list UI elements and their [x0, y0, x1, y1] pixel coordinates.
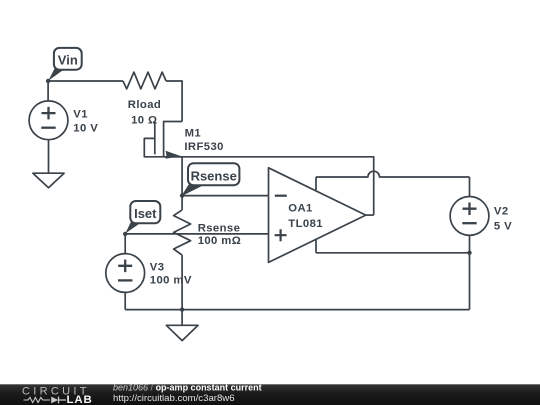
svg-text:Rsense: Rsense	[191, 168, 237, 183]
svg-text:V3: V3	[150, 262, 165, 274]
voltage source V3	[106, 254, 145, 293]
wire op-amp output to M1 gate	[144, 138, 373, 215]
svg-text:Rsense: Rsense	[198, 222, 241, 234]
node flag Rsense	[181, 163, 239, 196]
wire Rsense bottom to rail	[181, 255, 183, 310]
svg-text:10 Ω: 10 Ω	[131, 114, 157, 126]
svg-text:V2: V2	[494, 206, 509, 218]
node Iset junction dot	[123, 232, 127, 236]
resistor Rsense	[174, 210, 191, 255]
wire top rail Vin to Rload	[48, 80, 123, 82]
wire plus input from Iset node	[125, 233, 268, 235]
wire minus input from Rsense node	[182, 195, 268, 197]
ground below V1	[33, 173, 64, 188]
svg-text:IRF530: IRF530	[184, 141, 223, 153]
svg-text:http://circuitlab.com/c3ar8w6: http://circuitlab.com/c3ar8w6	[113, 393, 235, 404]
svg-text:OA1: OA1	[288, 203, 312, 215]
svg-text:100 mΩ: 100 mΩ	[198, 235, 242, 247]
transistor M1	[155, 121, 182, 196]
node V- rail junction dot	[467, 251, 471, 255]
wire Rsense node to resistor	[181, 196, 183, 210]
wire Vin node to V1	[47, 81, 49, 101]
footer bar	[0, 384, 540, 405]
resistor Rload	[123, 72, 166, 89]
wire V3 bottom to rail	[124, 292, 126, 309]
node Vin junction dot	[46, 79, 50, 83]
wire op-amp output stub	[366, 214, 374, 216]
node bottom rail junction dot	[180, 307, 184, 311]
wire V+ rail with hop	[316, 171, 470, 177]
node flag Iset	[125, 201, 160, 234]
wire V+ rail to V2 top	[469, 177, 471, 197]
voltage source V2	[450, 197, 489, 236]
svg-text:Iset: Iset	[134, 206, 157, 221]
svg-text:Vin: Vin	[58, 53, 78, 68]
svg-text:10 V: 10 V	[73, 123, 98, 135]
wire V- rail	[316, 252, 470, 254]
footer title text	[113, 382, 262, 404]
node flag Vin	[48, 48, 81, 81]
svg-text:Rload: Rload	[128, 99, 161, 111]
svg-text:M1: M1	[185, 127, 202, 139]
svg-text:LAB: LAB	[67, 394, 93, 405]
logo CircuitLab	[22, 385, 93, 405]
node Rsense junction dot	[180, 193, 184, 197]
wire bottom rail	[125, 309, 469, 311]
svg-text:5 V: 5 V	[494, 221, 512, 233]
op-amp OA1	[269, 168, 366, 263]
svg-text:ben1066 / op-amp constant curr: ben1066 / op-amp constant current	[113, 382, 262, 392]
wire V2 bottom to rail	[469, 235, 471, 309]
svg-text:TL081: TL081	[288, 218, 323, 230]
voltage source V1	[29, 101, 68, 140]
wire V1 bottom to ground	[48, 140, 50, 174]
ground at bottom rail	[166, 310, 198, 341]
wire Iset node to V3	[124, 234, 126, 254]
wire Rload to M1 drain	[166, 81, 182, 122]
svg-text:100 mV: 100 mV	[150, 275, 192, 287]
svg-text:V1: V1	[73, 109, 88, 121]
